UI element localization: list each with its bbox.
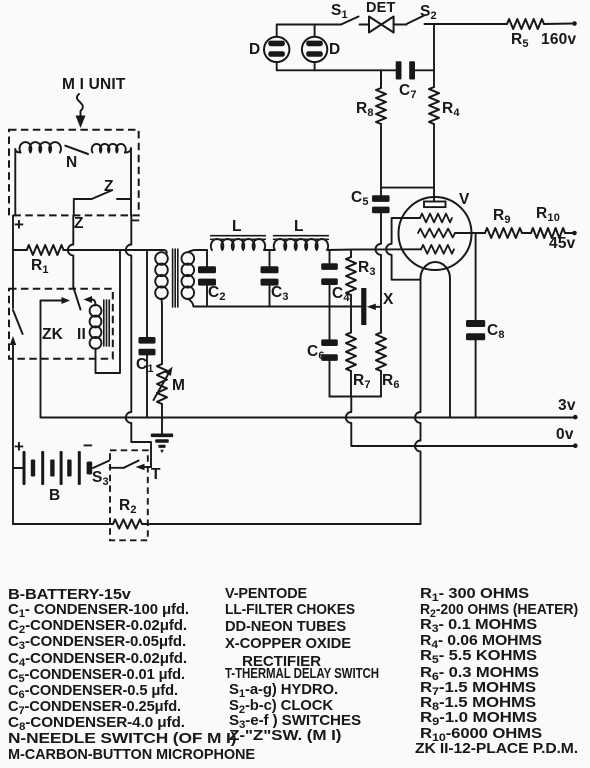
capacitor C5 plates	[372, 195, 390, 202]
wire R2 to cathode leg	[142, 523, 421, 525]
wire S1 to DET	[360, 24, 370, 26]
terminal dot 3v	[573, 415, 578, 420]
thermal switch T lever	[124, 461, 139, 468]
wire M1 minus terminal down to T	[126, 215, 151, 467]
capacitor C2 top lead	[206, 250, 208, 266]
wire grid1 left bracket	[386, 218, 420, 280]
resistor R2	[113, 519, 142, 528]
capacitor C6 plates	[321, 339, 338, 346]
wire S2 junction down to R4	[433, 24, 435, 87]
capacitor C3 bottom lead	[269, 286, 271, 307]
resistor R8	[376, 70, 386, 124]
transformer secondary bottom lead	[188, 299, 194, 307]
ground symbol	[151, 434, 173, 438]
wire R9 to R10	[522, 232, 531, 234]
wire L2 to pentode grid3	[327, 248, 421, 251]
terminal dot 45v	[572, 231, 577, 236]
relay coil II arrow to lever	[92, 300, 96, 306]
wire R8 to C5	[380, 124, 382, 195]
pentode V cathode arc	[421, 262, 451, 279]
terminal dot 160v	[572, 21, 577, 26]
wire cathode left leg	[415, 279, 421, 525]
switch S2 lever	[407, 16, 425, 25]
switch S3 lever	[93, 461, 109, 468]
pentode V grid 3	[421, 245, 454, 254]
ZK switch arrow up	[12, 345, 14, 352]
resistor R5	[507, 19, 544, 29]
wire C5 down to R6	[376, 213, 382, 332]
capacitor C1 top lead	[146, 250, 148, 337]
relay ZK armature lever	[73, 287, 80, 310]
thermal switch T dashed box	[110, 450, 148, 540]
resistor R7	[346, 333, 356, 372]
resistor R3 with leads	[350, 250, 352, 257]
neon tube D right bottom stem	[314, 62, 316, 70]
capacitor C3 plates	[261, 266, 279, 273]
neon tube D right electrodes	[306, 41, 323, 47]
arrow to thermal switch T	[145, 466, 152, 468]
choke L1	[211, 239, 265, 250]
capacitor C7 plates	[396, 61, 402, 79]
wire Z switch down to ZK relay	[68, 215, 74, 287]
M1 unit pointer squiggle arrow	[77, 94, 83, 116]
capacitor C8 plates	[466, 320, 485, 327]
wire coil II return	[96, 250, 121, 373]
choke L2	[274, 239, 328, 250]
wire M to ground	[161, 404, 163, 434]
resistor R9	[485, 228, 522, 238]
relay ZK dashed box	[9, 289, 113, 359]
neon tube D left top stem	[276, 25, 278, 37]
3v rail	[41, 417, 575, 419]
wire cathode right leg	[449, 279, 451, 418]
pentode V plate	[424, 202, 446, 208]
M1 unit dashed box	[9, 130, 139, 216]
capacitor C1 plates	[139, 337, 156, 344]
wire R4 to plate junction	[433, 124, 435, 201]
coil N right tail	[125, 148, 131, 215]
relay coil II loops	[90, 305, 102, 317]
terminal dot 0v	[573, 443, 578, 448]
relay coil II core	[104, 300, 109, 346]
wire R1 left lead	[13, 249, 27, 251]
microphone M element	[157, 364, 167, 404]
capacitor C2 bottom lead	[206, 286, 208, 307]
neon tube D right top stem	[314, 25, 316, 37]
capacitor C8 top lead	[475, 233, 477, 320]
wire connector down to 0v rail	[346, 397, 356, 447]
wire S2 to R5	[425, 23, 508, 25]
wire DET to S2	[394, 24, 407, 26]
resistor R4	[429, 87, 439, 124]
wire R5 to 160v terminal	[544, 23, 573, 26]
microphone M arrow	[154, 374, 169, 400]
wire top rail left (neon tubes to S1)	[277, 24, 341, 26]
needle switch N coil right	[92, 144, 126, 153]
needle switch N lever	[65, 146, 88, 154]
capacitor C4 top lead	[329, 250, 331, 263]
wire L1-L2 junction	[264, 249, 275, 251]
wire C4 to C6	[329, 285, 331, 339]
transformer primary winding	[155, 252, 168, 265]
transformer core	[173, 249, 178, 307]
wire M1 plus terminal down	[12, 215, 14, 250]
wire S3 to T switch	[110, 467, 124, 469]
ZK left switch lever	[13, 310, 23, 334]
resistor R1	[27, 245, 64, 255]
heater wire bottom	[13, 523, 113, 525]
wire battery plus stub	[13, 467, 23, 469]
choke L1 core	[211, 236, 266, 240]
choke L2 core	[274, 236, 329, 240]
rectifier X plate	[361, 288, 366, 325]
neon tube D right envelope	[302, 37, 327, 62]
neon tube D left bottom stem	[276, 62, 278, 70]
rectifier DET bowtie	[369, 17, 394, 33]
0v rail	[351, 445, 574, 447]
wire secondary to X rail	[194, 306, 362, 308]
wire ZK contact down to 3v rail corner	[40, 301, 42, 418]
capacitor C6 bottom lead	[329, 361, 331, 397]
pentode V envelope	[399, 197, 472, 270]
capacitor C4 plates	[321, 263, 338, 270]
pentode V grid 1	[420, 214, 452, 223]
wire grid2 to R9	[455, 232, 485, 234]
coil N left tail	[15, 149, 20, 215]
transformer secondary winding	[182, 252, 195, 265]
battery B cells	[23, 451, 26, 485]
ZK fixed contact arrow	[41, 300, 63, 302]
wire C7 to R4 vertical	[415, 69, 434, 71]
pentode V grid 2	[418, 229, 455, 238]
capacitor C8 bottom lead	[475, 340, 477, 417]
switch Z in M1 box	[74, 190, 131, 215]
capacitor C3 top lead	[269, 250, 271, 266]
wire R10 to 45v terminal	[565, 232, 573, 234]
switch S1 lever	[341, 17, 359, 25]
wire R7 to connector	[350, 371, 352, 397]
wire R6 to bottom connector	[380, 371, 382, 397]
needle switch N coil left	[20, 142, 61, 152]
wire neon tubes bottom to C7	[277, 69, 396, 71]
wire left vertical to ZK switch	[12, 250, 14, 308]
neon tube D left envelope	[264, 37, 289, 62]
transformer primary bottom lead	[161, 299, 164, 364]
resistor R10	[531, 228, 565, 238]
resistor R6	[376, 333, 386, 372]
wire R8-R4 connector	[381, 187, 434, 189]
wire ZK switch to battery plus	[12, 352, 14, 524]
capacitor C2 plates	[198, 266, 216, 273]
wire bottom connector C6-R7-R6	[330, 396, 382, 398]
wire R1 to transformer	[64, 250, 167, 254]
neon tube D left electrodes	[268, 41, 285, 47]
capacitor C1 bottom lead	[146, 355, 148, 417]
transformer secondary top lead	[188, 250, 207, 252]
arrow X pointing at plate	[376, 306, 381, 308]
